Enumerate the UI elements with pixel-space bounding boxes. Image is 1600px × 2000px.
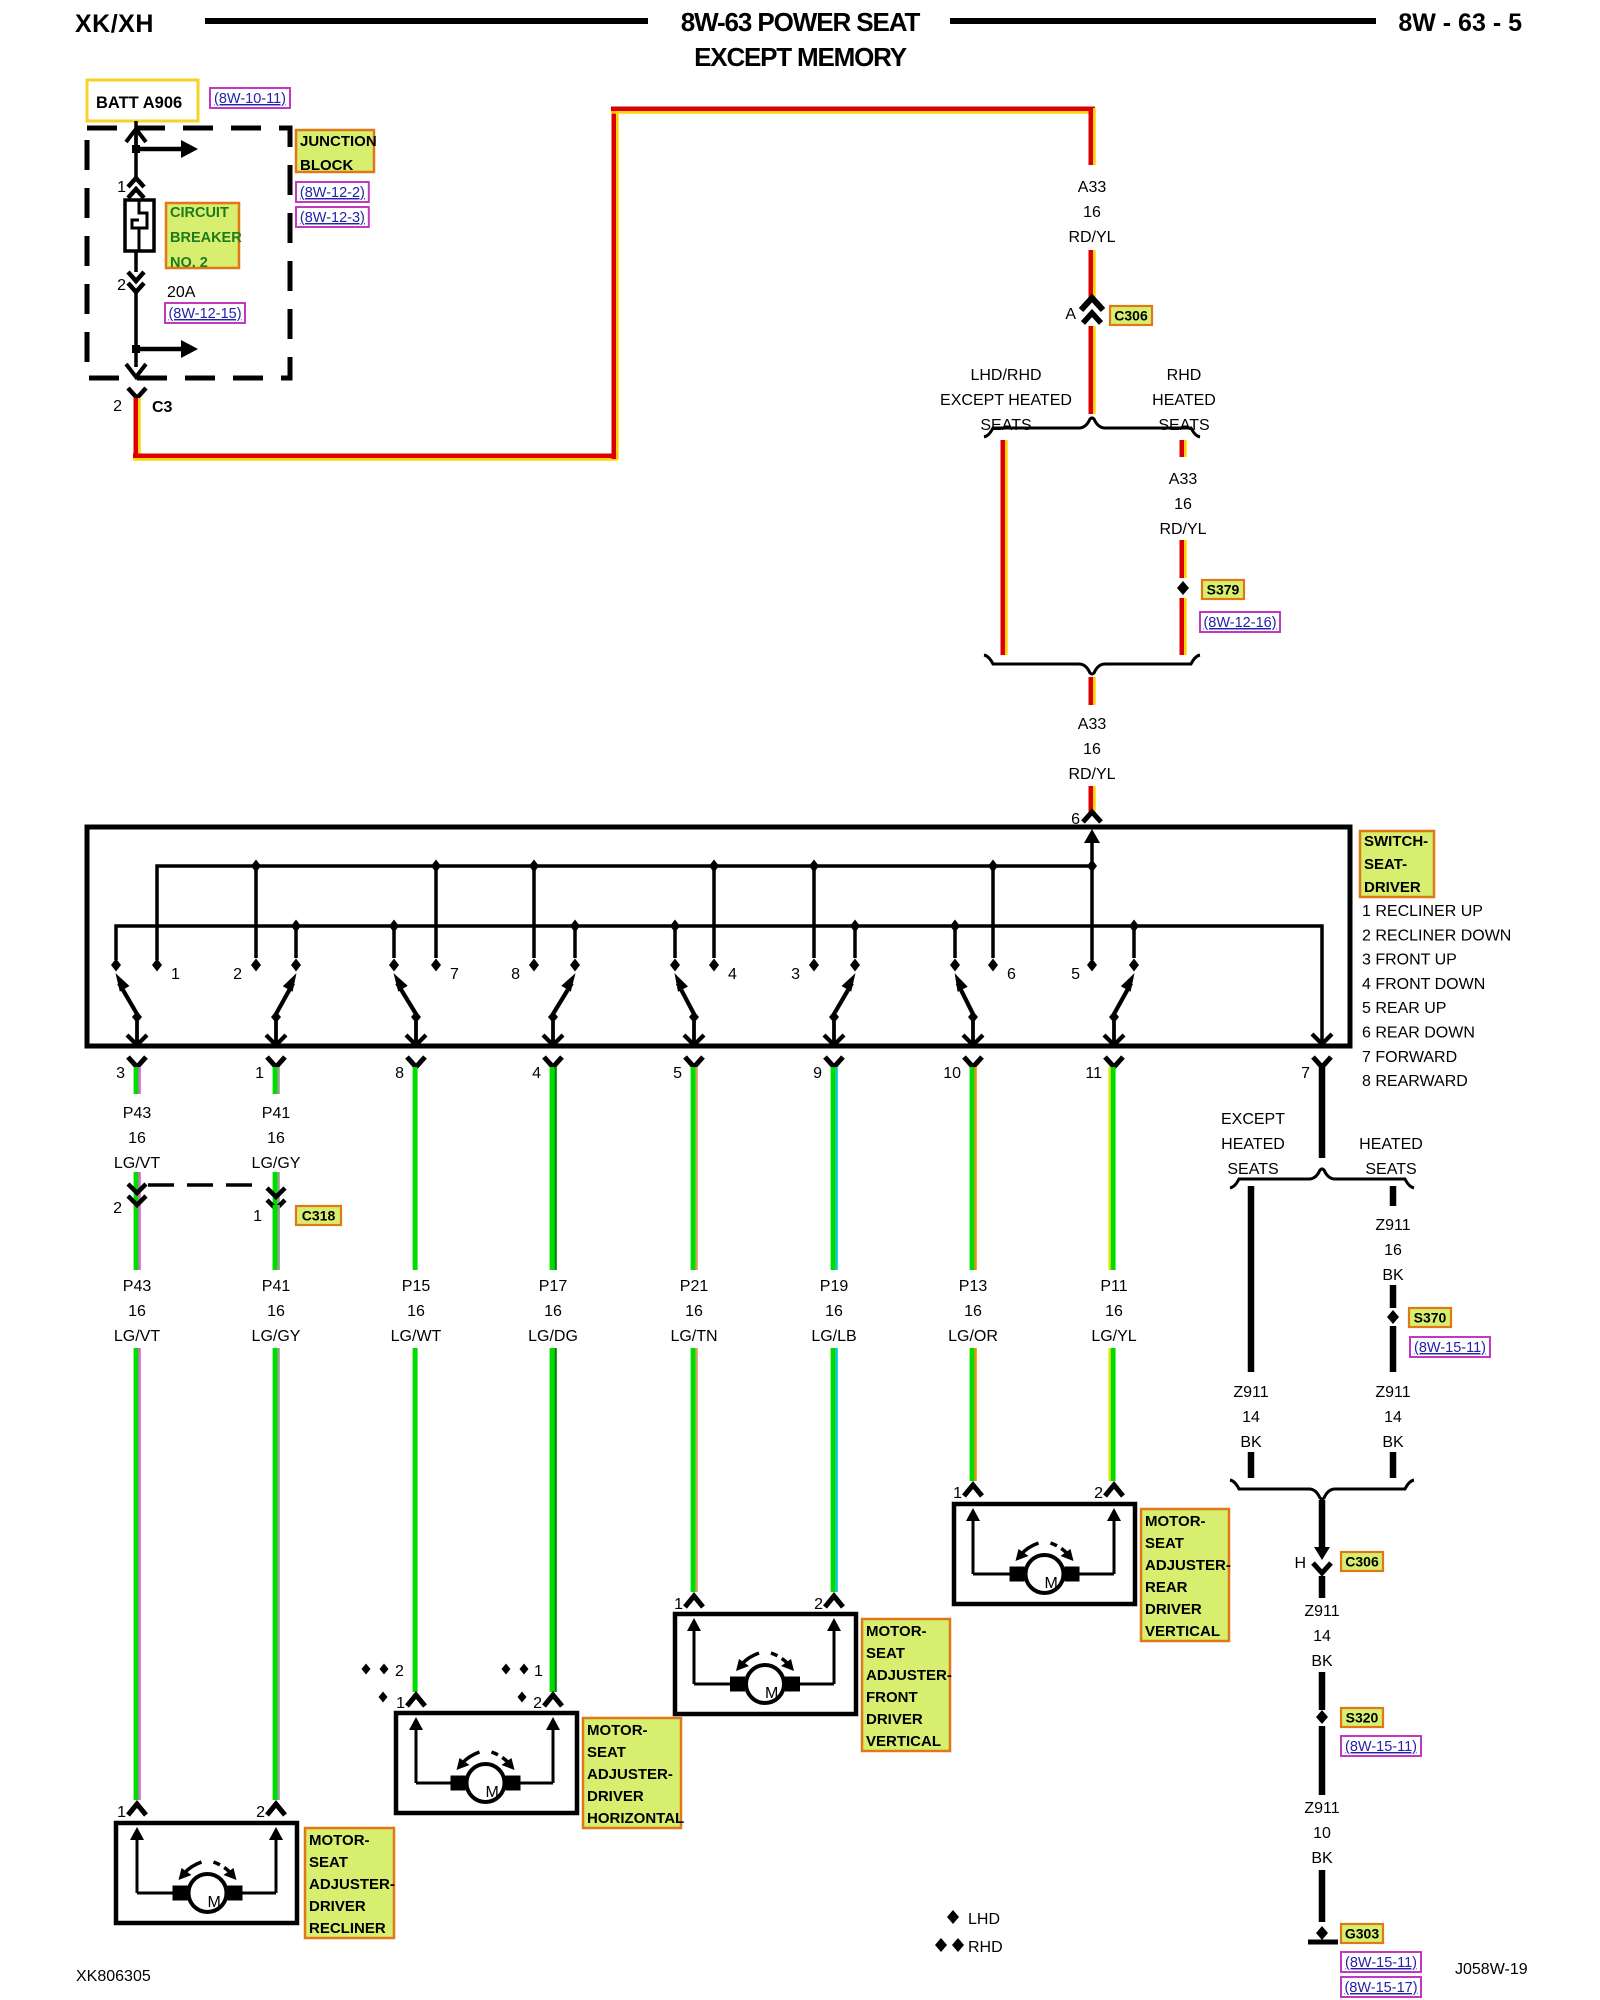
legend RHD [935,1938,947,1952]
connector C318 pin 2 [128,1184,146,1193]
svg-text:SEAT: SEAT [309,1854,348,1871]
link 8W-15-17 at G303 [1341,1977,1421,1997]
motor input pins [964,1485,982,1496]
svg-text:BK: BK [1311,1850,1333,1867]
svg-text:7: 7 [450,966,459,983]
svg-text:LG/LB: LG/LB [811,1328,856,1345]
wire P41 through C318 [273,1172,278,1270]
svg-text:10: 10 [1313,1825,1331,1842]
svg-text:16: 16 [825,1303,843,1320]
wire P21 to motor [691,1348,696,1592]
svg-text:(8W-15-11): (8W-15-11) [1345,1739,1417,1755]
motor input pins [685,1596,703,1607]
svg-text:(8W-12-2): (8W-12-2) [300,185,365,201]
label SWITCH-SEAT-DRIVER [1360,831,1434,897]
svg-text:NO. 2: NO. 2 [170,255,208,271]
svg-text:ADJUSTER-: ADJUSTER- [866,1667,952,1684]
svg-text:A33: A33 [1078,716,1107,733]
switch contact 8 from upper bus [529,860,539,873]
svg-text:S379: S379 [1207,582,1240,598]
label MOTOR-SEAT ADJUSTER-DRIVER RECLINER [305,1828,394,1938]
svg-text:1: 1 [253,1208,262,1225]
svg-text:DRIVER: DRIVER [1364,879,1421,896]
svg-text:EXCEPT MEMORY: EXCEPT MEMORY [694,42,907,72]
label MOTOR-SEAT ADJUSTER-DRIVER HORIZONTAL [583,1718,681,1828]
wire A33 RD/YL top horizontal run [611,107,1095,112]
svg-text:LG/GY: LG/GY [252,1155,301,1172]
svg-text:H: H [1294,1555,1306,1572]
wire A33 right branch middle [1180,540,1185,578]
svg-text:LG/VT: LG/VT [114,1155,160,1172]
svg-text:P43: P43 [123,1105,152,1122]
svg-text:1 RECLINER UP: 1 RECLINER UP [1362,903,1483,920]
wire Z911 from switch pin 7 [1319,1067,1326,1158]
svg-text:2: 2 [256,1804,265,1821]
label C318 [296,1206,341,1225]
switch contact from lower bus [950,920,960,933]
wire to C3 [134,349,138,367]
arrowhead at junction block bottom [126,364,146,377]
svg-text:2: 2 [117,277,126,294]
svg-text:M: M [208,1894,221,1911]
svg-text:(8W-15-11): (8W-15-11) [1345,1955,1417,1971]
wire A33 to switch [1089,677,1094,705]
wire P13 [970,1067,975,1270]
wire P41 to motor [273,1348,278,1800]
switch pole at 694 [692,1013,696,1044]
switch output pin 4 [544,1057,562,1067]
svg-text:RD/YL: RD/YL [1068,766,1115,783]
svg-text:16: 16 [544,1303,562,1320]
svg-text:J058W-19: J058W-19 [1455,1961,1528,1978]
wire BATT to junction block [134,121,138,146]
switch output pin 11 [1105,1057,1123,1067]
motor box [675,1614,856,1714]
svg-text:2: 2 [533,1695,542,1712]
switch output pin 10 [964,1057,982,1067]
wire A33 into switch pin 6 [1089,786,1094,814]
wire A33 RD/YL bottom horizontal run [133,454,618,459]
svg-text:LG/DG: LG/DG [528,1328,578,1345]
wire A33 right branch lower [1180,598,1185,655]
motor internal wiring [693,1628,696,1684]
wire Z911 heated below splice [1390,1326,1397,1372]
header rule right [950,18,1376,24]
junction dot lower [132,345,140,353]
svg-text:(8W-15-17): (8W-15-17) [1344,1980,1417,1996]
svg-text:HEATED: HEATED [1221,1136,1285,1153]
svg-text:MOTOR-: MOTOR- [309,1832,370,1849]
motor rotation arrows [185,1862,202,1873]
svg-text:1: 1 [674,1596,683,1613]
svg-text:BK: BK [1382,1267,1404,1284]
svg-text:LG/GY: LG/GY [252,1328,301,1345]
wire P43 to motor [134,1348,139,1800]
svg-text:4 FRONT DOWN: 4 FRONT DOWN [1362,976,1485,993]
svg-text:Z911: Z911 [1233,1384,1268,1401]
svg-text:LHD/RHD: LHD/RHD [970,367,1041,384]
switch pole at 1114 [1112,1013,1116,1044]
svg-text:XK/XH: XK/XH [75,10,154,38]
svg-text:BLOCK: BLOCK [300,157,353,174]
svg-text:LG/TN: LG/TN [670,1328,717,1345]
svg-text:1: 1 [171,966,180,983]
svg-text:C306: C306 [1345,1554,1379,1570]
svg-text:MOTOR-: MOTOR- [866,1623,927,1640]
svg-text:M: M [1045,1575,1058,1592]
svg-text:S370: S370 [1414,1310,1447,1326]
motor armature M [730,1677,745,1692]
svg-text:BK: BK [1240,1434,1262,1451]
feed arrow right upper [136,147,184,152]
svg-text:2: 2 [113,1200,122,1217]
svg-text:P19: P19 [820,1278,849,1295]
label CIRCUIT BREAKER NO. 2 [166,203,239,268]
svg-text:1: 1 [255,1065,264,1082]
svg-text:1: 1 [534,1663,543,1680]
wire A33 left branch [1001,440,1006,655]
svg-text:SEAT: SEAT [866,1645,905,1662]
brace merge heated seats [1230,1480,1414,1499]
svg-text:VERTICAL: VERTICAL [1145,1623,1220,1640]
link 8W-15-11 at S320 [1341,1736,1421,1756]
switch-seat-driver box [87,827,1350,1046]
link 8W-15-11 at G303 [1341,1952,1421,1972]
connector C318 pin 1 [267,1188,285,1197]
wire Z911 to ground [1319,1870,1326,1922]
svg-text:14: 14 [1384,1409,1402,1426]
wire cb pin2 down [134,251,138,272]
wire P43 through C318 [134,1172,139,1270]
wire Z911 to S320 [1319,1672,1326,1710]
wire P13 to motor [970,1348,975,1481]
switch contact 3 from upper bus [809,860,819,873]
svg-text:Z911: Z911 [1304,1800,1339,1817]
svg-text:9: 9 [813,1065,822,1082]
wire P41 lower [273,1205,278,1270]
svg-text:HORIZONTAL: HORIZONTAL [587,1810,684,1827]
wire P21 [691,1067,696,1270]
switch output pin 9 [825,1057,843,1067]
label MOTOR-SEAT ADJUSTER-FRONT DRIVER VERTICAL [862,1619,950,1751]
wire Z911 left lower stub [1248,1452,1255,1478]
svg-text:MOTOR-: MOTOR- [587,1722,648,1739]
svg-text:2: 2 [1094,1485,1103,1502]
switch contact from lower bus [670,920,680,933]
svg-text:1: 1 [396,1695,405,1712]
svg-text:(8W-12-3): (8W-12-3) [300,210,365,226]
switch contact from lower bus [291,920,301,933]
switch output pin 8 [407,1057,425,1067]
switch contact from lower bus [570,920,580,933]
wire P19 [831,1067,836,1270]
svg-text:BREAKER: BREAKER [170,230,242,246]
motor box [116,1823,297,1923]
svg-text:6 REAR DOWN: 6 REAR DOWN [1362,1025,1475,1042]
wire A33 right branch upper [1180,440,1185,457]
switch contact from lower bus [850,920,860,933]
svg-text:M: M [486,1784,499,1801]
switch pole at 276 [274,1013,278,1044]
svg-text:14: 14 [1242,1409,1260,1426]
motor armature M [173,1886,188,1901]
svg-text:EXCEPT: EXCEPT [1221,1111,1285,1128]
svg-text:DRIVER: DRIVER [1145,1601,1202,1618]
svg-text:2 RECLINER DOWN: 2 RECLINER DOWN [1362,927,1511,944]
svg-text:ADJUSTER-: ADJUSTER- [1145,1557,1231,1574]
svg-text:5: 5 [1071,966,1080,983]
svg-text:SEAT: SEAT [1145,1535,1184,1552]
switch pole at 416 [414,1013,418,1044]
svg-text:DRIVER: DRIVER [587,1788,644,1805]
svg-text:ADJUSTER-: ADJUSTER- [309,1876,395,1893]
svg-text:JUNCTION: JUNCTION [300,133,377,150]
svg-text:RHD: RHD [968,1939,1003,1956]
svg-text:P13: P13 [959,1278,988,1295]
svg-text:ADJUSTER-: ADJUSTER- [587,1766,673,1783]
wire Z911 except heated seats branch [1248,1186,1255,1372]
svg-text:M: M [765,1685,778,1702]
motor rotation arrows [742,1653,759,1664]
legend LHD [947,1910,959,1924]
svg-text:8: 8 [511,966,520,983]
wire P19 to motor [831,1348,836,1592]
svg-text:(8W-12-16): (8W-12-16) [1203,615,1276,631]
wire Z911 heated mid [1390,1285,1397,1308]
svg-text:7: 7 [1301,1065,1310,1082]
switch pole at 834 [832,1013,836,1044]
svg-text:2: 2 [395,1663,404,1680]
svg-text:P15: P15 [402,1278,431,1295]
svg-text:4: 4 [728,966,737,983]
svg-text:Z911: Z911 [1304,1603,1339,1620]
svg-text:8W-63 POWER SEAT: 8W-63 POWER SEAT [681,7,921,37]
switch output pin 1 [267,1057,285,1067]
wire A33 RD/YL drop to label [1089,108,1094,165]
svg-text:3: 3 [791,966,800,983]
wire A33 below C306 [1089,326,1094,414]
svg-text:1: 1 [117,1804,126,1821]
wire P15 to motor [413,1348,418,1692]
svg-text:1: 1 [953,1485,962,1502]
svg-text:SEAT: SEAT [587,1744,626,1761]
svg-text:CIRCUIT: CIRCUIT [170,205,229,221]
svg-text:11: 11 [1085,1065,1102,1082]
svg-text:SEATS: SEATS [980,417,1031,434]
switch output pin 5 [685,1057,703,1067]
battery feed box BATT A906 [87,80,198,121]
svg-text:BK: BK [1311,1653,1333,1670]
wire P15 [413,1067,418,1270]
svg-text:16: 16 [128,1130,146,1147]
LHD/RHD pin marks motor horizontal [362,1664,371,1675]
svg-text:16: 16 [267,1303,285,1320]
switch contact from lower bus [389,920,399,933]
junction dot upper [132,145,140,153]
svg-text:RD/YL: RD/YL [1068,229,1115,246]
svg-text:4: 4 [532,1065,541,1082]
svg-text:P41: P41 [262,1105,291,1122]
circuit breaker CB2 symbol [125,200,154,251]
link 8W-15-11 at S370 [1410,1337,1490,1357]
svg-text:8W - 63 - 5: 8W - 63 - 5 [1398,9,1522,37]
label JUNCTION BLOCK [296,130,374,172]
svg-text:LG/YL: LG/YL [1091,1328,1136,1345]
svg-text:LHD: LHD [968,1911,1000,1928]
splice S379 [1177,581,1189,595]
motor input pins [407,1695,425,1706]
junction block dashed outline [87,128,290,378]
svg-text:RECLINER: RECLINER [309,1920,386,1937]
switch contact from lower bus [1129,920,1139,933]
header rule left [205,18,648,24]
wire to circuit breaker pin 1 [134,146,138,178]
wire Z911 heated seats branch upper [1390,1186,1397,1206]
motor internal wiring [415,1727,418,1783]
motor armature M [1010,1567,1025,1582]
wire P17 to motor [550,1348,555,1692]
svg-text:6: 6 [1007,966,1016,983]
motor rotation arrows [463,1752,480,1763]
svg-text:16: 16 [1083,204,1101,221]
wire Z911 to C306 [1319,1500,1326,1548]
svg-text:P17: P17 [539,1278,568,1295]
switch output pin 7 [1313,1057,1331,1067]
svg-text:10: 10 [943,1065,961,1082]
svg-text:P43: P43 [123,1278,152,1295]
svg-text:P11: P11 [1100,1278,1127,1295]
svg-text:A33: A33 [1078,179,1107,196]
svg-text:P21: P21 [680,1278,709,1295]
svg-text:2: 2 [113,398,122,415]
svg-text:SEATS: SEATS [1365,1161,1416,1178]
switch contact 2 from upper bus [251,860,261,873]
svg-text:EXCEPT HEATED: EXCEPT HEATED [940,392,1072,409]
svg-text:5: 5 [673,1065,682,1082]
switch upper bus [157,866,1092,960]
svg-text:MOTOR-: MOTOR- [1145,1513,1206,1530]
svg-text:G303: G303 [1345,1926,1379,1942]
motor internal wiring [972,1518,975,1574]
wire A33 to connector C306 [1089,250,1094,298]
svg-text:LG/OR: LG/OR [948,1328,998,1345]
wire A33 RD/YL left vertical riser [612,110,617,459]
link 8W-10-11 [210,88,290,108]
svg-text:16: 16 [1384,1242,1402,1259]
svg-text:SEATS: SEATS [1227,1161,1278,1178]
feed arrow right lower [136,347,184,352]
link 8W-12-16 [1200,612,1280,632]
wire Z911 below C306 [1319,1576,1326,1598]
brace merge to switch feed [984,655,1200,674]
motor box [954,1504,1135,1604]
svg-text:VERTICAL: VERTICAL [866,1733,941,1750]
svg-text:HEATED: HEATED [1359,1136,1423,1153]
svg-text:REAR: REAR [1145,1579,1188,1596]
svg-text:Z911: Z911 [1375,1384,1410,1401]
svg-text:RHD: RHD [1167,367,1202,384]
link 8W-12-3 [296,207,369,227]
svg-text:LG/WT: LG/WT [391,1328,442,1345]
svg-text:FRONT: FRONT [866,1689,918,1706]
wire P43 upper stub [134,1067,139,1094]
svg-text:XK806305: XK806305 [76,1968,151,1985]
connector C306 pin A [1081,298,1103,310]
svg-text:16: 16 [964,1303,982,1320]
splice S370 [1387,1310,1399,1324]
svg-text:S320: S320 [1346,1710,1379,1726]
svg-text:RD/YL: RD/YL [1159,521,1206,538]
svg-text:16: 16 [128,1303,146,1320]
link 8W-12-2 [296,182,369,202]
svg-text:SWITCH-: SWITCH- [1364,833,1428,850]
svg-text:16: 16 [1174,496,1192,513]
switch feed pin 6 internal [1084,829,1100,843]
svg-text:(8W-12-15): (8W-12-15) [168,306,241,322]
svg-text:7 FORWARD: 7 FORWARD [1362,1049,1457,1066]
motor box [396,1713,577,1813]
svg-text:A33: A33 [1169,471,1198,488]
svg-text:1: 1 [117,179,126,196]
svg-text:20A: 20A [167,284,196,301]
wire P41 upper stub [273,1067,278,1094]
switch pole at 137 [135,1013,139,1044]
svg-text:DRIVER: DRIVER [309,1898,366,1915]
svg-text:SEAT-: SEAT- [1364,856,1407,873]
wire A33 RD/YL from C3 down [134,398,139,457]
C318 dashed tie line [148,1183,265,1187]
switch contact 4 from upper bus [709,860,719,873]
svg-text:3: 3 [116,1065,125,1082]
switch lower bus [116,926,1322,1042]
motor internal wiring [136,1837,139,1893]
motor rotation arrows [1022,1543,1039,1554]
splice S320 [1316,1710,1328,1724]
svg-text:(8W-15-11): (8W-15-11) [1414,1340,1486,1356]
svg-text:14: 14 [1313,1628,1331,1645]
svg-text:P41: P41 [262,1278,291,1295]
connector C306 pin H [1314,1547,1330,1560]
wire Z911 right lower stub [1390,1452,1397,1478]
svg-text:16: 16 [407,1303,425,1320]
svg-text:5 REAR UP: 5 REAR UP [1362,1000,1446,1017]
svg-text:2: 2 [233,966,242,983]
wire P11 to motor [1111,1348,1116,1481]
svg-text:16: 16 [1083,741,1101,758]
brace split heated seats [1230,1169,1414,1188]
svg-text:3 FRONT UP: 3 FRONT UP [1362,952,1457,969]
switch contact 7 from upper bus [431,860,441,873]
svg-text:A: A [1065,306,1076,323]
svg-text:C318: C318 [302,1208,336,1224]
ground G303 [1316,1926,1328,1940]
svg-text:BATT A906: BATT A906 [96,94,182,112]
brace split LHD/RHD [984,418,1200,437]
wire P11 [1111,1067,1116,1270]
wire P17 [550,1067,555,1270]
svg-text:BK: BK [1382,1434,1404,1451]
link 8W-12-15 [165,303,245,323]
svg-text:SEATS: SEATS [1158,417,1209,434]
motor input pins [128,1804,146,1815]
svg-text:LG/VT: LG/VT [114,1328,160,1345]
svg-text:C3: C3 [152,399,173,416]
switch pole at 553 [551,1013,555,1044]
svg-text:(8W-10-11): (8W-10-11) [214,91,286,107]
arrowhead into junction block [126,129,146,142]
svg-text:16: 16 [267,1130,285,1147]
switch pole at 973 [971,1013,975,1044]
